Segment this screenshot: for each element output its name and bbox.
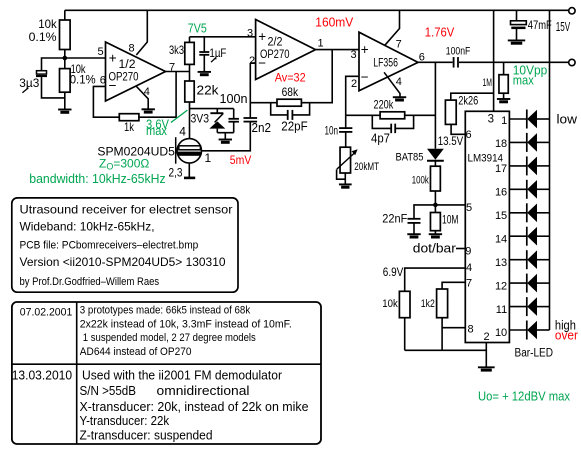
history row1 line 4 [80,346,192,358]
mic SPM0204UD5 body circle [177,139,201,163]
capacitor 22pF [288,110,293,120]
pin 1 label U1b [318,38,324,50]
wire LED D6 to anode bus [537,235,550,237]
label 220k [374,98,395,112]
svg-text:PCB file: PCbomreceivers–elect: PCB file: PCbomreceivers–electret.bmp [20,240,199,252]
capacitor 2n2 [244,118,258,122]
potentiometer 20kMT arrow [337,149,358,169]
svg-text:4p7: 4p7 [371,132,390,146]
svg-text:10M: 10M [442,214,459,226]
svg-text:47mF: 47mF [528,20,552,32]
pin 4 label U1a [144,86,150,98]
ground LM3914 pin2 [478,367,495,370]
svg-text:3k3: 3k3 [169,43,184,57]
svg-text:X-transducer: 20k, instead of: X-transducer: 20k, instead of 22k on mik… [80,399,309,414]
pin 8 label U1a [129,43,135,55]
label Uo= + 12dBV max [478,389,571,403]
svg-text:Wideband: 10kHz-65kHz,: Wideband: 10kHz-65kHz, [20,219,155,233]
label 100nF [446,46,471,58]
pin 3 label U2 [351,49,357,61]
label 2/2 (U1b) [268,36,283,48]
op-amp U1a 1/2 OP270 body [106,42,166,101]
label 47mF [528,20,552,32]
label 4p7 [371,132,390,146]
LED D10 cathode bar [526,321,528,340]
LED D1 triangle [527,110,537,129]
mic pins 2,3 label [169,166,183,180]
svg-text:5mV: 5mV [230,153,252,167]
mic membrane line [175,137,177,164]
wire 3u3 bottom to ground path [42,77,65,98]
svg-text:07.02.2001: 07.02.2001 [20,307,73,319]
wire LED D10 to anode bus [537,329,550,331]
svg-text:max: max [513,74,535,88]
svg-text:9: 9 [465,246,471,258]
svg-text:220k: 220k [374,98,395,112]
LED D4 cathode bar [526,180,528,199]
zener 3V3 bottom wire [216,129,218,133]
op-amp U1b 2/2 OP270 body [256,20,316,80]
label 68k [282,85,299,99]
wire to ground below zener [224,133,226,140]
svg-text:Uo= + 12dBV max: Uo= + 12dBV max [478,389,571,403]
resistor 10M [430,213,440,231]
wire 7V5 to 3k3 [189,37,191,43]
LED D9 cathode bar [526,297,528,316]
label 3.6V [146,118,170,132]
label OP270 (U1b) [260,49,290,61]
history date 13.03.2010 [12,369,72,383]
pin 14 label LM3914 [495,233,507,245]
wire LED D7 to anode bus [537,259,550,261]
wire rail to 47mF [516,10,518,20]
svg-text:Utrasound receiver for electre: Utrasound receiver for electret sensor [20,203,233,217]
wire rail to pin 7 U2 [385,10,400,45]
wire pin 14 to LED D6 [509,235,526,237]
wire 220k left [346,114,380,116]
pin 7 label U2 [396,38,402,50]
label 10n [325,125,339,137]
label high [555,318,576,332]
svg-text:bandwidth: 10kHz-65kHz: bandwidth: 10kHz-65kHz [29,172,165,186]
node divider junction dot [63,56,68,61]
wire pin 7 to 1k2 [442,282,465,289]
wire 47mF to ground [516,29,518,40]
wire 10k to bottom bus [404,318,406,351]
wire 22pF loop left [271,103,287,115]
svg-text:OP270: OP270 [260,49,290,61]
wire 4p7 loop left [372,115,390,128]
svg-text:2n2: 2n2 [252,121,272,135]
pin 11 label LM3914 [496,304,507,316]
resistor 1k2 [437,289,448,318]
svg-text:dot/bar: dot/bar [413,242,456,256]
LED D6 cathode bar [526,227,528,246]
svg-text:Version <ii2010-SPM204UD5> 130: Version <ii2010-SPM204UD5> 130310 [20,255,226,269]
svg-text:7: 7 [396,38,402,50]
label 22k [197,84,220,98]
svg-text:Bar-LED: Bar-LED [515,347,554,359]
history row1 line 1 [80,305,251,317]
label 13.5V [438,134,464,148]
label 1k2 [421,298,435,310]
svg-text:160mV: 160mV [315,16,354,30]
resistor 2k26 [445,100,456,124]
wire pot to ground [344,173,346,184]
LED D1 cathode bar [526,110,528,129]
wire 1k to output U1a [139,72,176,118]
pin 3 label U1b [247,28,253,40]
wire 15V to 2k26 [451,93,494,100]
wire pin 4 U2 to ground [384,72,400,97]
wire 1uF to ground [203,55,205,72]
label Zo=300ohm [99,157,149,172]
capacitor 100n top wire [233,109,235,119]
node C junction dot [433,203,438,208]
label bandwidth [29,172,165,186]
label 1uF [209,48,226,60]
wire LED D1 to anode bus [537,118,550,120]
svg-text:100n: 100n [220,92,248,106]
label Av=32 [275,70,306,84]
op-amp U1a plus marker [109,50,117,65]
op-amp U2 minus marker [361,70,369,85]
svg-text:−: − [361,70,369,85]
history box 2 frame [12,302,321,444]
info box 1 line 2 [20,219,155,233]
pin 17 label LM3914 [495,163,507,175]
svg-text:10: 10 [495,327,507,339]
capacitor 100n [228,119,239,122]
ground mic [184,177,195,180]
svg-text:13.5V: 13.5V [438,134,464,148]
pin 10 label LM3914 [495,327,507,339]
wire 68k node horizontal [250,102,277,104]
wire +15V top rail [65,9,569,11]
pin 2 label U2 [351,78,357,90]
pin 2 label U1b [249,55,255,67]
label Bar-LED [515,347,554,359]
wire LED D5 to anode bus [537,212,550,214]
label 10k (lower divider) [71,62,87,76]
LED D9 triangle [527,297,537,316]
wire 10k to node A divider [64,50,66,59]
svg-text:18: 18 [495,138,507,150]
wire pin 17 to LED D3 [509,165,526,167]
capacitor 1uF drop wire [203,37,205,52]
history row2 line 1 [82,368,283,383]
wire LED D3 to anode bus [537,165,550,167]
capacitor 4p7 [391,124,395,133]
wire 2n2 to pin 2 node U1b [249,63,251,118]
svg-text:3: 3 [247,28,253,40]
wire mic pin 1 to 2n2 [202,122,251,151]
label 100n [220,92,248,106]
label max (10Vpp) [513,74,535,88]
svg-text:+: + [258,29,266,44]
svg-text:BAT85: BAT85 [396,152,424,164]
svg-text:7V5: 7V5 [188,22,207,36]
history date 07.02.2001 [20,307,73,319]
svg-text:2/2: 2/2 [268,36,283,48]
ground zener node [219,140,232,143]
LED D10 triangle [527,321,537,340]
LED D5 triangle [527,204,537,223]
wire pin 12 to LED D8 [509,282,526,284]
svg-text:2k26: 2k26 [458,93,478,107]
resistor 10k 0.1% upper [60,20,71,50]
pin 6 label LM3914 [466,129,472,141]
label SPM0204UD5 [97,144,175,158]
svg-text:4: 4 [396,76,402,88]
svg-text:1: 1 [205,151,212,165]
label 7V5 [188,22,207,36]
pin 6 label U2 [419,51,425,63]
svg-text:S/N >55dB: S/N >55dB [80,383,137,398]
terminal output [569,59,575,65]
op-amp U2 LF356 body [359,32,418,91]
LED D2 triangle [527,133,537,152]
svg-text:12: 12 [495,280,507,292]
LED D7 triangle [527,250,537,269]
svg-text:15V: 15V [556,20,571,34]
svg-text:100k: 100k [412,174,429,186]
pin 8 label LM3914 [468,324,474,336]
op-amp U1b plus marker [258,29,266,44]
ground 1M [497,99,510,102]
mic pin 4 label [179,125,186,139]
wire 3k3 to 22k [189,64,191,81]
wire pin 6 U1a feedback down [93,86,119,117]
pin 1 label LM3914 [501,115,507,127]
wire pin 4 U1a to ground [136,86,148,109]
svg-text:Z-transducer: suspended: Z-transducer: suspended [80,428,213,443]
wire pin 18 to LED D2 [509,141,526,143]
svg-text:13: 13 [495,257,507,269]
label LF356 [373,58,398,70]
label 10k (pin4) [382,298,398,310]
svg-text:11: 11 [496,304,507,316]
svg-text:2,3: 2,3 [169,166,183,180]
wire 22nF to ground [413,223,415,234]
zener 3V3 triangle [209,121,225,128]
info box 1 line 1 [20,203,233,217]
label 15V [556,20,571,34]
terminal 15V [569,8,575,14]
label over [555,329,578,343]
LED D3 triangle [527,157,537,176]
history row2 line 3 [80,399,309,414]
svg-text:OP270: OP270 [109,72,139,84]
pin 9 label LM3914 [465,246,471,258]
wire U2 output [418,61,453,63]
wire U2 output down to BAT85 [434,62,436,148]
wire pin 2 stub U1b [250,62,255,64]
wire pin 10 to LED D10 [509,329,526,331]
label 20kMT [354,161,379,173]
svg-text:1k2: 1k2 [421,298,435,310]
wire 68k to output riser [301,50,332,103]
svg-text:3: 3 [488,113,494,125]
wire pin 9 stub [456,248,465,250]
capacitor 100n bottom wire [233,122,235,133]
wire 1k2 to bottom bus [441,318,443,351]
ground 22nF [407,234,420,237]
wire node to op-amp pin 5 [65,57,106,59]
svg-text:1/2: 1/2 [119,59,136,71]
LED D4 triangle [527,180,537,199]
label dot/bar [413,242,456,256]
history row1 line 2 [80,319,292,331]
capacitor 10n wire top [345,115,347,128]
pin 2 label LM3914 [484,331,490,343]
svg-text:15: 15 [495,210,507,222]
wire node B horizontal [190,108,234,110]
svg-text:low: low [557,112,579,126]
pin 12 label LM3914 [495,280,507,292]
svg-text:0.1%: 0.1% [29,30,57,44]
label 1.76V [425,26,455,40]
label 1M [483,77,493,89]
wire 2k26 to pin 6 [451,124,465,134]
svg-text:1M: 1M [483,77,493,89]
svg-text:Used with the ii2001 FM demodu: Used with the ii2001 FM demodulator [82,368,283,383]
wire LED D4 to anode bus [537,188,550,190]
wire LED D8 to anode bus [537,282,550,284]
wire LED D9 to anode bus [537,306,550,308]
info box 1 line 5 [20,276,160,288]
ground divider [58,110,71,113]
label 2n2 [252,121,272,135]
history row2 line 2a [80,383,137,398]
label 3V3 [191,112,210,126]
svg-text:+: + [109,50,117,65]
svg-text:2: 2 [484,331,490,343]
op-amp U1a minus marker [109,78,117,93]
LED D8 cathode bar [526,274,528,293]
svg-text:Y-transducer: 22k: Y-transducer: 22k [80,413,170,428]
wire output U1a to bias column [166,71,190,73]
capacitor 10n [339,128,352,132]
wire rail to pin 8 U1a [136,10,147,55]
svg-text:LF356: LF356 [373,58,398,70]
svg-text:22nF: 22nF [382,211,407,225]
label max (3.6V) [146,124,168,138]
wire pin 15 to LED D5 [509,212,526,214]
diode BAT85 triangle [427,149,444,160]
history row2 line 2b [157,383,250,398]
svg-text:20kMT: 20kMT [354,161,379,173]
svg-text:14: 14 [495,233,507,245]
pin 15 label LM3914 [495,210,507,222]
svg-text:1µF: 1µF [209,48,226,60]
ground U1a pin4 [142,109,155,112]
svg-text:5: 5 [98,46,104,58]
pin 7 label LM3914 [466,277,472,289]
svg-text:3V3: 3V3 [191,112,210,126]
wire mic bottom to ground [188,163,190,177]
svg-text:5: 5 [466,202,472,214]
resistor 10k 0.1% lower [60,69,71,93]
ground 1uF [198,72,211,75]
resistor 1M [499,75,508,94]
label LM3914 [468,152,504,164]
label 10M [442,214,459,226]
wire 15V rail drop to R 10k top [64,10,66,20]
label 160mV [315,16,354,30]
svg-text:2: 2 [249,55,255,67]
capacitor 47mF minus plate [511,27,525,30]
pin 16 label LM3914 [495,187,507,199]
mic pin 1 label [205,151,212,165]
wire output after 100nF to terminal [459,61,569,63]
capacitor 47mF plus plate [511,21,527,25]
label OP270 (U1a) [109,72,139,84]
svg-text:10k: 10k [382,298,398,310]
wire U1b output to LF356 [316,49,360,51]
resistor 100k [430,166,440,191]
info box 1 line 3 [20,240,199,252]
pointer line 3.6V max [171,110,188,122]
label 6.9V [383,265,404,279]
svg-text:3 prototypes made: 66k5 instea: 3 prototypes made: 66k5 instead of 68k [80,305,251,317]
svg-text:8: 8 [468,324,474,336]
svg-text:over: over [555,329,578,343]
wire 1M to ground [503,93,505,99]
wire node to cap 3u3 [42,58,65,71]
svg-text:3µ3: 3µ3 [19,76,39,90]
op-amp U2 plus marker [361,42,369,57]
pin 7 label U1a [169,62,175,74]
svg-text:7: 7 [466,277,472,289]
svg-text:by Prof.Dr.Godfried–Willem Rae: by Prof.Dr.Godfried–Willem Raes [20,276,160,288]
svg-text:4: 4 [466,262,472,274]
wire node C to pin 5 LM3914 [435,204,465,206]
pointer tick 3u3 [22,88,28,93]
label 5mV [230,153,252,167]
label 0.1% (lower divider) [70,73,96,87]
svg-text:6: 6 [466,129,472,141]
label 10k (upper divider) [38,17,57,31]
svg-text:10n: 10n [325,125,339,137]
ground 10M [429,234,442,237]
zener 3V3 cathode bar [210,112,223,114]
potentiometer 20kMT body [340,147,351,173]
wire 7V5 rail [190,36,256,38]
ground U2 pin4 [393,97,406,100]
zener 3V3 slash [215,113,224,122]
label 2k26 [458,93,478,107]
pin 4 label LM3914 [466,262,472,274]
svg-text:22k: 22k [197,84,220,98]
history row2 line 4 [80,413,170,428]
label 0.1% (upper divider) [29,30,57,44]
resistor 68k feedback [277,99,301,106]
svg-text:1k: 1k [124,120,135,134]
wire node C to 22nF [414,205,435,219]
svg-text:1 suspended model, 2 27 degre: 1 suspended model, 2 27 degree models [83,332,256,344]
svg-text:8: 8 [129,43,135,55]
label 3k3 [169,43,184,57]
resistor 220k feedback [380,112,405,119]
LED D3 cathode bar [526,156,528,175]
svg-text:AD644 instead of OP270: AD644 instead of OP270 [80,346,192,358]
label 100k [412,174,429,186]
wire zener/100n bottom join [217,132,233,134]
resistor 10k pin4 [399,291,410,317]
svg-text:22pF: 22pF [281,119,308,133]
pin 13 label LM3914 [495,257,507,269]
